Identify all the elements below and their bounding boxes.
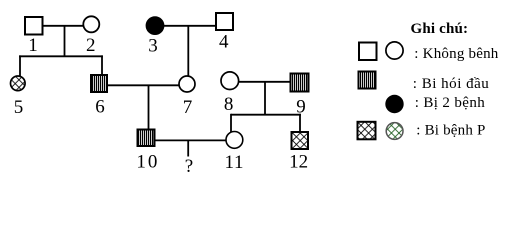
person 12 square hatched — [292, 132, 309, 149]
person 5 circle hatched — [10, 76, 25, 91]
wire drop to 6 — [101, 55, 103, 75]
svg-text:: Không bênh: : Không bênh — [414, 46, 499, 62]
person 8 circle — [221, 72, 239, 90]
svg-text:8: 8 — [224, 94, 234, 115]
wire drop from couple 6-7 to 10 — [148, 85, 150, 130]
svg-text:6: 6 — [95, 97, 105, 118]
person 10 square striped — [138, 130, 155, 147]
wire couple line 8-9 — [238, 81, 291, 83]
svg-text:2: 2 — [86, 35, 96, 56]
wire couple line 3-4 — [163, 25, 216, 27]
person 6 square striped — [91, 75, 107, 92]
wire drop from couple 3-4 to 7 — [187, 26, 189, 77]
legend circle no disease — [386, 42, 403, 59]
svg-text:Ghi chú:: Ghi chú: — [411, 21, 469, 37]
wire sibling bar gen II left — [19, 55, 103, 57]
wire drop to 5 — [19, 55, 21, 77]
wire drop from couple 8-9 — [264, 82, 266, 115]
wire drop to 11 — [230, 114, 232, 133]
legend filled circle both diseases — [385, 95, 403, 113]
wire couple line 6-7 — [107, 84, 180, 86]
wire couple line 1-2 — [43, 25, 84, 27]
svg-text:5: 5 — [14, 97, 24, 118]
svg-text:: Bi bệnh P: : Bi bệnh P — [416, 123, 485, 139]
person 4 square — [216, 13, 233, 30]
person 11 circle — [226, 132, 243, 149]
svg-text:12: 12 — [289, 151, 308, 172]
person 3 filled circle — [146, 17, 163, 34]
legend circle disease P hatched — [386, 123, 403, 140]
svg-text:9: 9 — [296, 97, 306, 118]
wire tick unknown child — [187, 140, 189, 156]
legend square no disease — [359, 43, 377, 61]
person 7 circle — [179, 76, 195, 92]
svg-text:1: 1 — [28, 35, 38, 56]
legend square bald striped — [359, 72, 376, 89]
svg-text:: Bi hói đầu: : Bi hói đầu — [413, 76, 490, 92]
svg-text:3: 3 — [148, 36, 158, 57]
person 9 square striped — [291, 74, 309, 92]
svg-text:4: 4 — [219, 31, 229, 52]
person 1 square — [25, 17, 43, 35]
person 2 circle — [83, 16, 99, 32]
wire couple line 10-11 — [155, 139, 227, 141]
svg-text:?: ? — [185, 156, 193, 177]
wire drop from couple 1-2 — [64, 26, 66, 57]
svg-text:: Bị 2 bệnh: : Bị 2 bệnh — [415, 95, 486, 111]
svg-text:11: 11 — [224, 152, 244, 173]
wire sibling bar gen III right — [231, 114, 301, 116]
legend square disease P hatched — [358, 122, 376, 140]
svg-text:10: 10 — [136, 152, 159, 173]
wire drop to 12 — [299, 114, 301, 133]
svg-text:7: 7 — [183, 97, 193, 118]
